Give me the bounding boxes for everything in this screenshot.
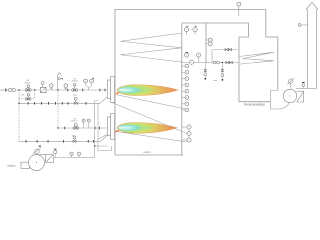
- twin burner instruments: [84, 78, 95, 90]
- shaft side instruments: [206, 38, 212, 42]
- flange: [27, 102, 30, 105]
- main shutoff valve PZK-1: [24, 80, 31, 91]
- fan 1 (air blower): [21, 155, 53, 171]
- inlet valve circles: [8, 88, 15, 91]
- flange: [47, 102, 50, 105]
- flange: [54, 102, 57, 105]
- valve circles: [213, 61, 220, 64]
- branch to burner 2 gas: [57, 90, 59, 128]
- sight line burner1 to scanner: [117, 95, 185, 109]
- svg-text:Экономайзер: Экономайзер: [244, 103, 266, 107]
- flame 2 igniter jet: [113, 129, 120, 134]
- furnace box outline: [115, 10, 278, 156]
- junction dots main line: [18, 89, 58, 128]
- junction dot: [94, 145, 95, 146]
- drain 1: [204, 63, 207, 81]
- igniter valve PZK: [73, 95, 77, 104]
- flame 2 green lobe: [118, 124, 154, 132]
- flame 2 white core: [119, 127, 123, 129]
- valve: [229, 61, 232, 63]
- flame 1 cyan core: [118, 87, 142, 93]
- flame 1 igniter jet: [113, 91, 120, 96]
- air duct from fan: [53, 157, 95, 159]
- chimney stack: [306, 2, 318, 88]
- flange: [62, 140, 65, 143]
- svg-text:(ПЗК-2): (ПЗК-2): [71, 121, 78, 123]
- flange: [87, 140, 90, 143]
- igniter gas line burner 1: [19, 97, 107, 104]
- valve: [226, 61, 229, 63]
- flue duct instrument: [237, 2, 241, 16]
- flange: [47, 140, 50, 143]
- burner 2 body: [107, 114, 114, 140]
- flange: [85, 102, 88, 105]
- shaft bottom instruments: [185, 52, 189, 57]
- shaft top instruments: [184, 26, 188, 35]
- economizer zigzag coils: [239, 52, 274, 64]
- burner 1 body: [107, 77, 114, 103]
- instrument PI on gas line: [49, 84, 53, 90]
- bypass valve: [21, 94, 32, 100]
- sight line burner2 to scanner: [113, 131, 187, 142]
- flange: [25, 140, 28, 143]
- gas pressure regulator: [41, 82, 47, 93]
- fan 2 motor: [287, 78, 294, 90]
- svg-text:воздух: воздух: [8, 165, 17, 168]
- valve: [225, 48, 228, 50]
- flange: [33, 102, 36, 105]
- igniter gas line burner 2: [19, 135, 108, 141]
- valve: [228, 48, 231, 50]
- svg-text:котёл: котёл: [144, 150, 152, 154]
- furnace wall instrument stack: [185, 64, 189, 112]
- economizer outlet duct: [270, 91, 289, 110]
- flange: [92, 140, 95, 143]
- svg-text:(ПЗК-2): (ПЗК-2): [72, 81, 79, 83]
- inlet flange: [5, 89, 6, 92]
- junction: [222, 62, 223, 63]
- flame 1 envelope: [117, 85, 178, 96]
- fan 1 motor: [33, 146, 41, 154]
- windbox damper: [98, 134, 107, 139]
- flame 1 white core: [119, 89, 123, 91]
- water line shaft to economizer: [182, 62, 239, 64]
- fan 1 outlet instrument: [54, 150, 57, 153]
- instrument PI 2 on gas line: [64, 84, 68, 90]
- bypass loop: [19, 90, 35, 99]
- igniter valve burner 2: [72, 135, 76, 142]
- flame 1 green lobe: [118, 86, 154, 94]
- windbox channel: [95, 101, 112, 158]
- chimney instrument: [298, 24, 308, 27]
- fan 2 (flue gas fan): [283, 89, 303, 102]
- flame 2 envelope: [117, 123, 177, 134]
- gas line burner 2: [58, 127, 107, 129]
- flange: [61, 102, 64, 105]
- sight line burner1 lower to scanner: [112, 103, 187, 134]
- outlet instrument: [302, 82, 305, 88]
- main gas line: [4, 89, 107, 91]
- second shutoff valve on gas line: [67, 78, 78, 91]
- svg-text:(ПЗК-1): (ПЗК-1): [24, 83, 31, 85]
- steam line to economizer upper: [212, 50, 238, 63]
- instrument circles burner 2 line: [82, 119, 85, 128]
- flame 2 cyan core: [118, 125, 142, 131]
- vent stack with flag: [57, 73, 63, 91]
- fan 2 outlet line: [296, 87, 317, 89]
- flanges on main line: [81, 89, 84, 92]
- flange: [67, 102, 70, 105]
- air duct instruments: [70, 152, 73, 158]
- riser to lower lines: [18, 90, 20, 141]
- flame scanner circles: [187, 125, 191, 142]
- svg-text:слив: слив: [213, 80, 217, 82]
- drain 2: [213, 64, 224, 83]
- flange: [36, 140, 39, 143]
- flange: [40, 102, 43, 105]
- flanges burner 2: [63, 127, 66, 130]
- shutoff valve burner 2: [73, 123, 79, 129]
- superheater zigzag coils: [121, 33, 182, 62]
